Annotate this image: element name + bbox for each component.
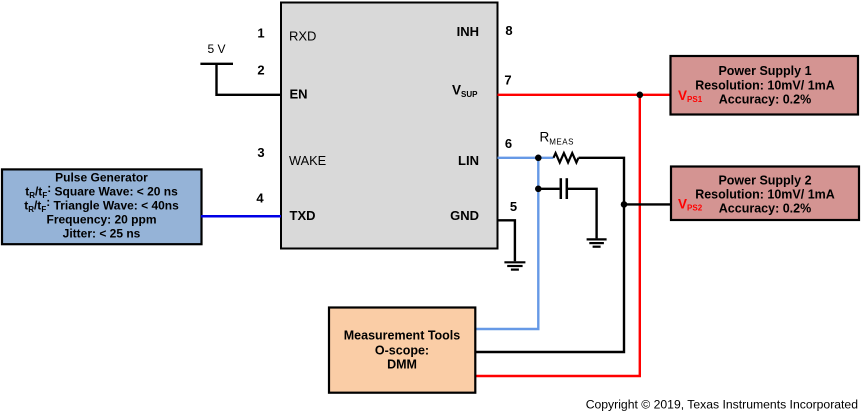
wire VSUP red: pin 7 to Power Supply 1	[498, 94, 671, 96]
svg-text:3: 3	[257, 145, 264, 160]
capacitor C1 plates	[560, 178, 563, 199]
svg-text:7: 7	[504, 72, 511, 87]
wire TXD (pulse generator to pin 4)	[201, 215, 281, 218]
node junction LIN / capacitor	[535, 186, 542, 193]
node junction PS2 branch	[621, 201, 628, 208]
svg-text:TXD: TXD	[290, 208, 316, 223]
svg-text:WAKE: WAKE	[289, 153, 326, 168]
IC U1 (LIN transceiver body)	[281, 3, 498, 249]
svg-text:Accuracy: 0.2%: Accuracy: 0.2%	[719, 202, 811, 216]
wire resistor to black vertical	[475, 158, 624, 352]
Power Supply 2 box PS2	[671, 167, 859, 221]
svg-text:O-scope:: O-scope:	[375, 343, 429, 357]
svg-text:Pulse Generator: Pulse Generator	[55, 171, 148, 185]
node junction LIN / RMEAS	[535, 155, 542, 162]
wire 5V to EN	[217, 64, 282, 95]
5V supply rail bar	[200, 63, 233, 65]
svg-text:Power Supply 2: Power Supply 2	[718, 173, 811, 187]
svg-text:1: 1	[257, 26, 264, 41]
svg-text:Jitter: < 25 ns: Jitter: < 25 ns	[63, 227, 141, 241]
svg-text:GND: GND	[450, 208, 479, 223]
capacitor C1 left lead	[538, 188, 559, 190]
wire LIN light blue: pin 6 to resistor	[498, 157, 554, 159]
svg-text:6: 6	[505, 136, 512, 151]
Power Supply 1 box PS1	[671, 56, 859, 115]
resistor RMEAS zigzag	[554, 153, 579, 162]
svg-text:Resolution: 10mV/ 1mA: Resolution: 10mV/ 1mA	[695, 78, 835, 92]
svg-text:8: 8	[505, 23, 512, 38]
capacitor C1 right lead to ground	[568, 189, 597, 239]
svg-text:Accuracy: 0.2%: Accuracy: 0.2%	[719, 93, 811, 107]
svg-text:2: 2	[257, 62, 264, 77]
svg-text:4: 4	[256, 191, 264, 206]
svg-text:Power Supply 1: Power Supply 1	[718, 64, 811, 78]
svg-text:DMM: DMM	[387, 357, 417, 371]
svg-text:5: 5	[510, 199, 517, 214]
svg-text:Resolution: 10mV/ 1mA: Resolution: 10mV/ 1mA	[695, 188, 835, 202]
svg-text:Frequency: 20 ppm: Frequency: 20 ppm	[46, 213, 156, 227]
ground (GND pin)	[504, 262, 525, 269]
node junction on VSUP wire	[637, 92, 644, 99]
wire GND pin 5 to ground	[498, 220, 515, 261]
svg-text:Measurement Tools: Measurement Tools	[344, 329, 461, 343]
svg-text:RMEAS: RMEAS	[540, 129, 574, 146]
svg-text:INH: INH	[457, 24, 479, 39]
svg-text:RXD: RXD	[289, 29, 316, 44]
wire to Power Supply 2	[624, 203, 671, 205]
wire LIN vertical drop to DMM	[475, 158, 538, 329]
svg-text:LIN: LIN	[458, 153, 479, 168]
Measurement Tools box DMM	[329, 308, 475, 393]
ground (capacitor)	[587, 239, 607, 246]
svg-text:5 V: 5 V	[207, 42, 225, 56]
svg-text:EN: EN	[290, 86, 308, 101]
wire red vertical drop to DMM	[475, 95, 640, 376]
Pulse Generator box PG1	[2, 169, 202, 244]
svg-text:Copyright © 2019, Texas Instru: Copyright © 2019, Texas Instruments Inco…	[586, 398, 858, 412]
